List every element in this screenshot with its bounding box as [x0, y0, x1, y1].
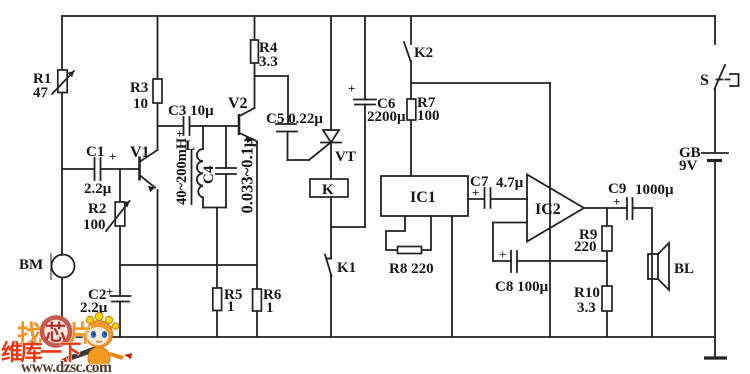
svg-text:0.033~0.1μ: 0.033~0.1μ: [238, 137, 257, 213]
svg-text:1: 1: [266, 300, 274, 316]
svg-text:3.3: 3.3: [577, 300, 596, 316]
svg-text:IC2: IC2: [535, 201, 561, 218]
svg-text:1000μ: 1000μ: [635, 182, 674, 198]
svg-text:1: 1: [227, 299, 235, 315]
svg-text:V2: V2: [228, 95, 248, 112]
svg-text:100: 100: [417, 108, 440, 124]
svg-text:+: +: [499, 247, 506, 262]
svg-text:10: 10: [133, 96, 148, 112]
svg-text:C3 10μ: C3 10μ: [168, 103, 214, 119]
svg-text:47: 47: [33, 85, 49, 101]
svg-text:VT: VT: [335, 149, 356, 165]
svg-text:100: 100: [83, 217, 106, 233]
svg-text:C5 0.22μ: C5 0.22μ: [266, 111, 323, 127]
svg-text:40~200mH: 40~200mH: [174, 137, 190, 205]
svg-text:C8 100μ: C8 100μ: [495, 279, 549, 295]
svg-text:BM: BM: [19, 257, 43, 273]
svg-text:4.7μ: 4.7μ: [496, 175, 524, 191]
svg-text:220: 220: [574, 239, 597, 255]
svg-text:BL: BL: [674, 261, 694, 277]
svg-text:K1: K1: [337, 260, 356, 276]
svg-text:9V: 9V: [679, 158, 698, 174]
svg-text:2200μ: 2200μ: [367, 109, 406, 125]
svg-text:IC1: IC1: [410, 189, 436, 206]
svg-text:+: +: [348, 81, 355, 96]
svg-text:K2: K2: [414, 45, 433, 61]
svg-text:V1: V1: [130, 144, 150, 161]
svg-text:+: +: [106, 284, 113, 299]
svg-text:+: +: [472, 185, 479, 200]
svg-text:R3: R3: [130, 80, 148, 96]
svg-text:S: S: [700, 72, 709, 89]
svg-text:C1: C1: [86, 144, 104, 160]
svg-text:R8 220: R8 220: [389, 261, 434, 277]
svg-text:R2: R2: [88, 201, 106, 217]
svg-text:3.3: 3.3: [259, 54, 278, 70]
svg-text:K: K: [322, 182, 334, 198]
svg-text:R10: R10: [574, 285, 600, 301]
svg-text:C4: C4: [201, 165, 217, 184]
svg-text:2.2μ: 2.2μ: [84, 181, 112, 197]
svg-text:2.2μ: 2.2μ: [80, 300, 108, 316]
svg-text:+: +: [109, 149, 116, 164]
svg-text:+: +: [613, 194, 620, 209]
svg-text:www.dzsc.com: www.dzsc.com: [21, 359, 112, 374]
